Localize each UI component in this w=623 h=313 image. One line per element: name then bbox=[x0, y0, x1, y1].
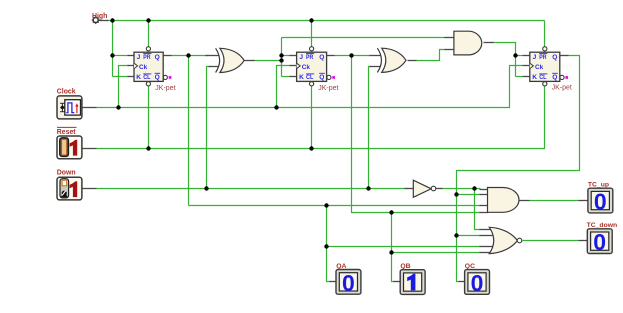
wire High vertical to J1/K1 bbox=[112, 21, 114, 77]
wire down riser to XOR2 in2 bbox=[369, 67, 371, 189]
wire J1 branch bbox=[113, 55, 129, 57]
pin stub AND1 out bbox=[484, 42, 494, 44]
pin stub XOR1 in2 bbox=[209, 66, 219, 68]
wire down riser to XOR1 in2 bbox=[207, 67, 211, 189]
svg-text:0: 0 bbox=[471, 270, 484, 296]
svg-text:K: K bbox=[532, 74, 537, 81]
wire XOR1 net vertical bbox=[281, 38, 283, 77]
pin stub TC_down bbox=[579, 240, 588, 242]
svg-text:QA: QA bbox=[336, 263, 346, 270]
wire QA row to AND2 bbox=[189, 205, 481, 207]
junction top rail/PR2 bbox=[309, 18, 313, 22]
wire QB drop to indicator bbox=[392, 213, 395, 282]
XOR gate X1 bbox=[216, 48, 245, 72]
svg-text:Q: Q bbox=[319, 54, 324, 61]
wire AND1 out net bbox=[493, 43, 516, 77]
pin stub NOR in1 bbox=[480, 229, 493, 231]
svg-text:Down: Down bbox=[57, 170, 76, 177]
svg-text:J: J bbox=[299, 54, 303, 61]
svg-text:PR: PR bbox=[143, 54, 150, 61]
pin stub Q2 bbox=[327, 55, 335, 57]
junction XOR1 out bbox=[279, 58, 283, 62]
junction J3 branch bbox=[513, 53, 517, 57]
wire NOT out row bbox=[442, 188, 481, 190]
indicator QC bbox=[465, 270, 490, 296]
svg-text:TC_down: TC_down bbox=[587, 222, 618, 229]
indicator QB bbox=[400, 270, 425, 295]
pin stub AND2 in1 bbox=[480, 189, 489, 191]
junction down/XOR2 in2 bbox=[366, 186, 370, 190]
wire K1 branch bbox=[113, 76, 129, 78]
wire QA vertical drop bbox=[188, 56, 190, 206]
pin stub Ck2 bbox=[290, 65, 297, 67]
svg-text:Clock: Clock bbox=[57, 88, 76, 95]
wire XOR2 out to AND1 in2 bbox=[417, 50, 446, 61]
svg-text:J: J bbox=[137, 54, 141, 61]
indicator TC_up bbox=[588, 188, 613, 214]
pin stub J1 bbox=[128, 55, 135, 57]
svg-text:JK-pet: JK-pet bbox=[318, 85, 338, 92]
junction QA row/indicator bbox=[324, 203, 328, 207]
svg-text:Ck: Ck bbox=[139, 64, 148, 71]
pin stub TC_up bbox=[579, 200, 588, 202]
wire Q3 loop to QC chain bbox=[457, 56, 580, 282]
pin stub XOR1 out bbox=[245, 60, 255, 62]
pin stub J3 bbox=[523, 55, 530, 57]
terminal High bbox=[92, 16, 100, 24]
svg-text:J: J bbox=[533, 54, 537, 61]
reset switch SW2 bbox=[57, 136, 82, 159]
svg-text:0: 0 bbox=[342, 270, 355, 296]
JK flip-flop U2 bbox=[297, 47, 335, 86]
wire clock rail bbox=[97, 66, 523, 108]
svg-text:Q: Q bbox=[155, 54, 160, 61]
wire Q1 row to XOR1 in1 bbox=[171, 55, 209, 57]
indicator QA bbox=[336, 270, 361, 296]
pin stub XOR1 in1 bbox=[206, 55, 219, 57]
wire Ck1 riser bbox=[119, 66, 129, 108]
pin stub Ck1 bbox=[128, 65, 135, 67]
pin stub NOT in bbox=[405, 188, 414, 190]
svg-text:JK-pet: JK-pet bbox=[155, 85, 175, 92]
pin stub QC bbox=[459, 281, 465, 283]
pin stub XOR2 in2 bbox=[370, 66, 381, 68]
wire QC row to NOR bbox=[457, 235, 481, 237]
indicator TC_down bbox=[587, 229, 612, 255]
NOR gate O1 (4-input) bbox=[489, 227, 522, 253]
junction QB row/indicator bbox=[389, 210, 393, 214]
junction QC/NOR in2 bbox=[454, 233, 458, 237]
pin stub AND1 in2 bbox=[445, 49, 455, 51]
pin stub Q3 bbox=[560, 55, 569, 57]
pin stub K1 bbox=[128, 76, 135, 78]
wire K2 branch bbox=[282, 76, 291, 78]
pin stub Q1 bbox=[163, 55, 172, 57]
svg-text:PR: PR bbox=[306, 54, 313, 61]
pin stub NOR in3 bbox=[480, 246, 495, 248]
junction clock/Ck1 bbox=[116, 105, 120, 109]
down switch SW3 bbox=[57, 177, 82, 200]
svg-text:Q: Q bbox=[552, 54, 557, 61]
pin stub down out bbox=[82, 188, 97, 190]
JK flip-flop U3 bbox=[530, 47, 568, 86]
wire AND2 out to TC_up bbox=[530, 200, 579, 202]
wire QA row to NOR bbox=[327, 246, 481, 248]
wire Q2 row to XOR2 in1 bbox=[335, 55, 371, 57]
wire PR1 riser bbox=[148, 21, 150, 47]
pin stub AND2 in3 bbox=[480, 205, 489, 207]
wire NOR out to TC_down bbox=[523, 240, 579, 242]
junction Q2/QB net bbox=[349, 53, 353, 57]
wire PR2 riser bbox=[311, 21, 313, 47]
junction reset/CL2 bbox=[309, 146, 313, 150]
wire Ck2 riser bbox=[277, 66, 291, 108]
svg-text:K: K bbox=[299, 74, 304, 81]
junction reset/CL1 bbox=[146, 146, 150, 150]
svg-text:PR: PR bbox=[539, 54, 546, 61]
clock source SW1 bbox=[57, 96, 82, 119]
wire to AND1 in1 bbox=[282, 37, 446, 39]
pin stub NOR in2 bbox=[480, 235, 495, 237]
pin stub AND2 in4 bbox=[480, 212, 489, 214]
AND gate A1 bbox=[454, 31, 482, 55]
svg-text:QB: QB bbox=[400, 263, 410, 270]
svg-text:Ck: Ck bbox=[535, 64, 544, 71]
wire down rail bbox=[97, 188, 406, 190]
wire XOR1 output net bbox=[254, 60, 282, 62]
svg-text:Q: Q bbox=[552, 74, 557, 81]
junction QB/NOR in4 bbox=[389, 250, 393, 254]
pin stub K2 bbox=[290, 76, 297, 78]
wire reset rail bbox=[97, 86, 545, 149]
pin stub reset out bbox=[82, 148, 97, 150]
pin stub QB bbox=[394, 281, 401, 283]
junction top rail/PR1 bbox=[146, 18, 150, 22]
svg-text:Ck: Ck bbox=[302, 64, 311, 71]
junction Q1/QA net bbox=[186, 53, 190, 57]
label Reset (overlined) bbox=[57, 127, 77, 135]
svg-text:0: 0 bbox=[593, 229, 606, 255]
junction QA/NOR in3 bbox=[324, 244, 328, 248]
wire High horizontal top rail bbox=[107, 20, 545, 22]
svg-text:High: High bbox=[92, 13, 107, 20]
pin stub XOR2 out bbox=[408, 60, 417, 62]
pin stub High bbox=[99, 20, 109, 22]
junction J1 branch bbox=[110, 53, 114, 57]
pin stub XOR2 in1 bbox=[370, 55, 381, 57]
wire NOT net to NOR in1 bbox=[475, 189, 481, 230]
svg-text:0: 0 bbox=[594, 189, 607, 215]
wire QC row to AND2 bbox=[457, 194, 481, 196]
pin stub AND2 in2 bbox=[480, 194, 489, 196]
wire QA drop to indicator bbox=[327, 206, 331, 282]
svg-text:Q: Q bbox=[155, 74, 160, 81]
NOT gate N1 bbox=[413, 180, 436, 197]
svg-text:CL: CL bbox=[143, 74, 150, 81]
wire CL1 riser bbox=[148, 86, 150, 149]
pin stub AND1 in1 bbox=[445, 37, 455, 39]
junction J2 branch bbox=[279, 53, 283, 57]
pin stub NOT out bbox=[436, 188, 443, 190]
wire J3 branch bbox=[516, 55, 523, 57]
junction High/top rail bbox=[110, 18, 114, 22]
pin stub Ck3 bbox=[523, 65, 530, 67]
junction down/XOR1 in2 bbox=[204, 186, 208, 190]
svg-text:CL: CL bbox=[306, 74, 313, 81]
pin stub J2 bbox=[290, 55, 297, 57]
wire CL2 riser bbox=[311, 86, 313, 149]
junction QC/AND2 in2 bbox=[454, 192, 458, 196]
svg-text:TC_up: TC_up bbox=[588, 182, 609, 189]
pin stub K3 bbox=[523, 76, 530, 78]
svg-text:QC: QC bbox=[465, 263, 475, 270]
pin stub AND2 out bbox=[519, 200, 530, 202]
wire J2 branch bbox=[282, 55, 291, 57]
wire QB vertical drop bbox=[352, 56, 481, 213]
junction clock/Ck2 bbox=[274, 105, 278, 109]
pin stub NOR in4 bbox=[480, 252, 493, 254]
pin stub clock out bbox=[82, 107, 97, 109]
wire PR3 riser bbox=[544, 21, 546, 47]
wire K3 branch bbox=[516, 76, 523, 78]
JK flip-flop U1 bbox=[134, 47, 171, 86]
AND gate A2 (4-input) bbox=[488, 188, 520, 213]
svg-text:CL: CL bbox=[539, 74, 546, 81]
svg-text:K: K bbox=[136, 74, 141, 81]
svg-text:Reset: Reset bbox=[57, 129, 76, 136]
svg-text:JK-pet: JK-pet bbox=[552, 85, 572, 92]
svg-text:Q: Q bbox=[319, 74, 324, 81]
pin stub QA bbox=[330, 281, 337, 283]
wire QB row to NOR bbox=[392, 252, 481, 254]
junction NOT out/NOR in1 bbox=[472, 186, 476, 190]
XOR gate X2 bbox=[377, 48, 406, 72]
